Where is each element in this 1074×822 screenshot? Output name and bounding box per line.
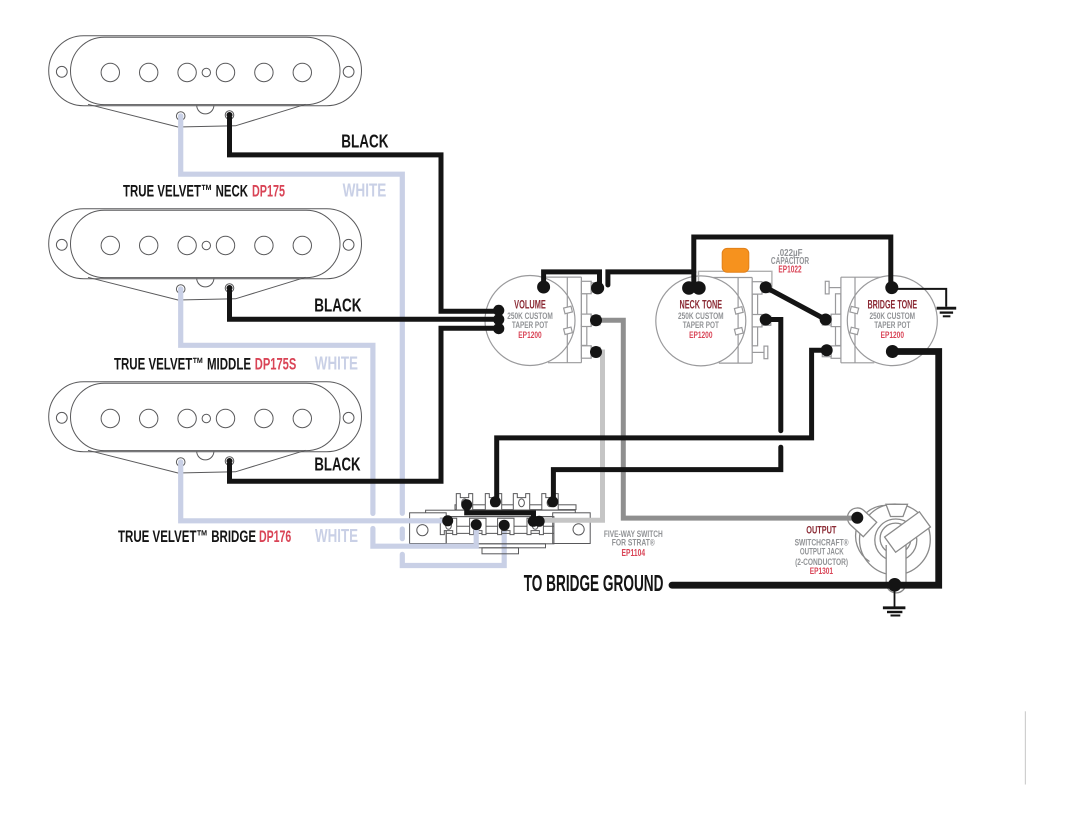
wire bridge black (pickup P3 to volume casing) [230,328,497,481]
label SW1 FIVE-WAY SWITCH FOR STRAT EP1104 [604,528,663,559]
label R1 VOLUME 250K CUSTOM TAPER POT EP1200 [507,298,553,340]
label pickup P3 TRUE VELVET BRIDGE DP176 [118,527,291,546]
svg-text:TRUE VELVET™ BRIDGE: TRUE VELVET™ BRIDGE [118,527,256,546]
label pickup P2 TRUE VELVET MIDDLE DP175S [114,354,296,373]
junction jack sleeve [888,578,902,592]
wire capacitor C1 leads [699,271,772,288]
svg-text:TAPER POT: TAPER POT [512,320,548,330]
junction volume lug2 [590,314,602,326]
svg-text:TRUE VELVET™ NECK: TRUE VELVET™ NECK [123,181,248,200]
svg-text:OUTPUT: OUTPUT [806,525,836,537]
label R2 NECK TONE 250K CUSTOM TAPER POT EP1200 [678,298,724,340]
svg-text:FOR STRAT®: FOR STRAT® [612,537,655,548]
svg-text:TAPER POT: TAPER POT [683,320,719,330]
wire neck tone lug1 to bridge tone lug2 (diagonal) [766,287,826,319]
label R3 BRIDGE TONE 250K CUSTOM TAPER POT EP1200 [867,298,917,340]
wire bridge tone casing to output jack sleeve to bridge ground [672,352,939,586]
junction switch lug B1 [442,515,453,526]
wire neck white (pickup P1 to switch lug B3) [181,117,505,566]
potentiometer R1 VOLUME 250K EP1200 [485,276,600,366]
svg-text:TRUE VELVET™ MIDDLE: TRUE VELVET™ MIDDLE [114,354,251,373]
junction bridge tone lug3 [821,344,833,356]
label pickup P1 TRUE VELVET NECK DP175 [123,181,285,200]
pickup P1 True Velvet Neck DP175 [49,36,362,127]
junction switch lug T4 [547,496,558,507]
junction volume casing top [537,281,550,294]
junction volume lug3 [590,346,602,358]
svg-text:TO BRIDGE GROUND: TO BRIDGE GROUND [524,570,664,596]
junction bridge tone casing top [885,281,898,294]
wire neck black (pickup P1 to volume casing) [230,117,497,311]
junction switch lug B2 [471,519,482,530]
svg-text:BRIDGE TONE: BRIDGE TONE [867,298,917,312]
wire volume casing to volume lug1 [544,272,600,285]
junction volume lug1 [591,282,604,295]
junction bridge tone lug2 [820,314,832,326]
svg-text:VOLUME: VOLUME [514,298,546,312]
wire middle black (pickup P2 to volume casing) [230,290,497,319]
page edge artifact line [1024,711,1026,784]
potentiometer R2 NECK TONE 250K EP1200 [656,276,771,366]
junction switch lug B3 [499,520,510,531]
junction jack tip lug [851,512,863,524]
label C1 .022uF CAPACITOR EP1022 [771,248,809,275]
capacitor C1 .022uF EP1022 [722,248,749,272]
svg-text:EP1104: EP1104 [622,548,646,559]
svg-text:EP1200: EP1200 [689,330,712,340]
svg-text:EP1200: EP1200 [518,330,541,340]
label J1 OUTPUT SWITCHCRAFT OUTPUT JACK 2-CONDUCTOR EP1301 [795,525,849,576]
junction switch lug B4 [528,516,545,527]
wire volume lug1 to neck tone casing [608,272,694,285]
svg-text:TAPER POT: TAPER POT [874,320,910,330]
switch SW1 five-way for Strat EP1104 [410,494,591,554]
junction volume casing (black pickup wires) [493,305,504,334]
svg-text:WHITE: WHITE [343,179,387,200]
wire bridge tone lug3 to switch lug T2 [497,350,827,500]
potentiometer R3 BRIDGE TONE 250K EP1200 [822,276,937,366]
wire switch jumper lug T1 to lug B4 [467,506,534,520]
jack J1 Switchcraft output jack EP1301 [847,504,930,593]
svg-text:OUTPUT JACK: OUTPUT JACK [800,546,844,557]
wire middle white (pickup P2 to switch lug B2) [181,290,477,546]
junction switch lug T2 [490,496,501,507]
svg-text:DP176: DP176 [259,527,291,546]
junction switch lug T1 [461,499,472,510]
svg-text:DP175: DP175 [252,181,285,200]
pickup P3 True Velvet Bridge DP176 [49,382,362,473]
svg-text:DP175S: DP175S [255,354,296,373]
wire neck tone lug2 to switch lug T4 [553,320,780,501]
ground symbol at bridge tone [892,289,956,316]
svg-text:NECK TONE: NECK TONE [679,298,722,312]
junction neck tone casing [682,281,706,295]
wire volume lug2 to jack tip (dark gray) [596,320,857,518]
svg-text:BLACK: BLACK [314,454,361,475]
svg-text:EP1200: EP1200 [881,330,904,340]
svg-text:WHITE: WHITE [315,525,358,546]
svg-text:EP1301: EP1301 [810,565,833,576]
svg-text:BLACK: BLACK [314,294,362,315]
wire volume lug3 to switch lug B4 (light gray) [539,352,603,520]
wire bridge white (pickup P3 to switch lug B1) [181,463,448,521]
svg-text:EP1022: EP1022 [778,264,801,275]
wire neck tone casing to bridge tone casing (top run) [694,237,891,285]
ground symbol at output jack [883,585,906,616]
junction neck tone lug1 [760,281,772,293]
junction bridge tone casing bottom [886,345,899,358]
svg-text:BLACK: BLACK [341,130,389,151]
pickup P2 True Velvet Middle DP175S [49,209,362,300]
junction neck tone lug2 [760,314,772,326]
svg-text:WHITE: WHITE [315,352,358,373]
